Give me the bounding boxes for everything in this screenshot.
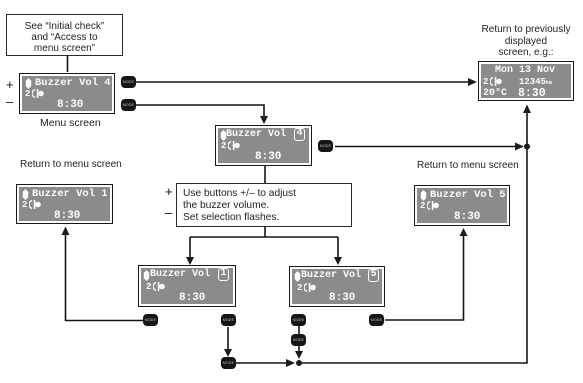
wire: MODE A to Mon screen — [136, 81, 469, 83]
speaker icon — [22, 189, 29, 200]
line 2: trip + odometer — [483, 77, 488, 87]
flashing selection box 4 — [294, 128, 305, 141]
line 2: trip indicator — [25, 89, 30, 99]
line 3 — [329, 292, 355, 304]
button: MODE E — [221, 314, 236, 326]
wire: note box to menu screen — [67, 56, 69, 72]
line 3 — [454, 211, 480, 223]
line 1 — [430, 189, 506, 201]
wire: drop to bottom-right screen — [337, 237, 339, 258]
speaker icon — [420, 190, 427, 201]
screen: middle Buzzer Vol (4) — [215, 125, 312, 166]
button: MODE G — [291, 314, 306, 326]
wire: MODE D left and up to screen Vol1 — [66, 234, 144, 321]
line 1 — [32, 188, 108, 200]
arrowhead into screen Vol1 bottom — [62, 227, 70, 236]
fuel icon — [29, 200, 42, 209]
arrowhead into junction — [286, 359, 295, 367]
label: return to previously displayed screen — [446, 24, 583, 59]
arrowhead into MODE F — [224, 349, 232, 357]
fuel icon — [228, 141, 241, 150]
speaker icon — [220, 130, 227, 141]
flashing selection box 1 — [218, 268, 229, 281]
label: plus sign left of instruction box — [165, 184, 173, 199]
line 1 — [150, 269, 210, 280]
line 3 — [179, 292, 205, 304]
screen: menu screen Buzzer Vol 4 — [19, 73, 115, 114]
line 2 — [420, 201, 425, 211]
line 1: Buzzer Vol boxed 4 — [226, 129, 286, 140]
line 3 — [255, 151, 281, 163]
fuel icon — [32, 89, 45, 98]
line 1: Mon 13 Nov — [495, 65, 555, 76]
line 2 — [22, 200, 27, 210]
arrowhead into Mon screen — [468, 78, 477, 86]
speaker icon — [143, 270, 150, 281]
note box: initial check — [6, 14, 123, 56]
arrowhead into middle screen top — [260, 116, 268, 124]
arrowhead into bottom-right screen — [334, 257, 342, 265]
fuel icon — [304, 283, 317, 292]
button: MODE A — [121, 76, 136, 88]
wire: middle screen to instruction box — [264, 166, 266, 183]
label: minus sign left of instruction box — [165, 205, 172, 220]
fuel icon — [490, 77, 503, 86]
line 2 — [146, 282, 151, 292]
arrowhead into bottom-left screen — [186, 257, 194, 265]
line 2 — [221, 141, 226, 151]
line 1 — [301, 270, 361, 281]
line 3 — [54, 210, 80, 222]
wire: MODE I right and up to screen Vol5 — [385, 235, 464, 320]
note box: use buttons instructions — [176, 183, 352, 227]
arrowhead up into Mon screen bottom — [523, 105, 531, 114]
label: return to menu screen right — [417, 160, 519, 171]
wire: instruction box down and T-split — [190, 227, 338, 237]
line 3: temp + clock — [483, 88, 507, 99]
label: Menu screen — [40, 117, 101, 129]
line 1: Buzzer Vol 4 — [35, 77, 111, 89]
speaker icon — [25, 78, 32, 89]
arrowhead into junction from MODE H — [295, 351, 303, 359]
wire: MODE E down to MODE F — [227, 327, 229, 350]
speaker icon — [294, 271, 301, 282]
screen: Buzzer Vol 1 — [16, 184, 113, 224]
label: minus sign left of menu screen — [6, 94, 13, 109]
screen: bottom Buzzer Vol (5) — [289, 266, 385, 307]
button: MODE I — [369, 314, 384, 326]
flashing selection box 5 — [368, 269, 379, 282]
wire: MODE H down to junction — [298, 346, 300, 351]
button: MODE B — [121, 99, 136, 111]
button: MODE F — [221, 357, 236, 369]
arrowhead into screen Vol5 bottom — [460, 228, 468, 236]
screen: Buzzer Vol 5 — [414, 185, 510, 226]
wire: MODE F right to junction — [236, 362, 287, 364]
arrowhead into right column junction — [515, 143, 524, 151]
wire: bottom line from junction right and up right side — [299, 109, 527, 363]
button: MODE C — [318, 140, 333, 152]
wire: MODE G to MODE H — [298, 326, 300, 334]
label: return to menu screen left — [20, 159, 122, 170]
screen: Mon 13 Nov — [478, 61, 574, 101]
line 2 — [297, 283, 302, 293]
fuel icon — [153, 282, 166, 291]
junction dot bottom — [296, 360, 302, 366]
wire: drop to bottom-left screen — [189, 237, 191, 258]
junction dot right column — [524, 144, 530, 150]
label: plus sign left of menu screen — [6, 77, 14, 92]
wire: MODE C right to right column junction — [335, 146, 516, 148]
fuel icon — [427, 201, 440, 210]
screen: bottom Buzzer Vol (1) — [138, 265, 236, 307]
line 3: clock 8:30 — [57, 99, 83, 111]
button: MODE H — [291, 334, 306, 346]
wire: MODE B right then down to middle screen — [136, 105, 264, 117]
button: MODE D — [143, 314, 158, 326]
